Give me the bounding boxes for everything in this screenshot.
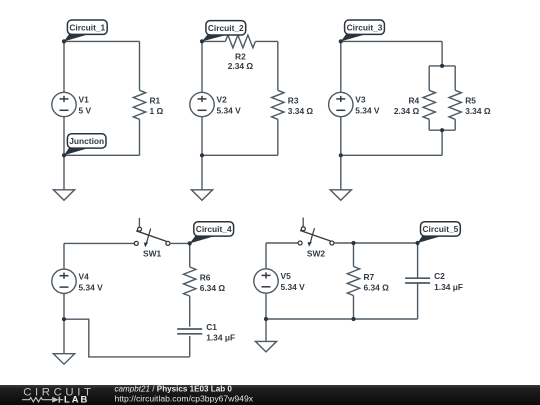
label R7 value — [364, 272, 390, 292]
svg-text:SW1: SW1 — [143, 249, 161, 259]
svg-text:Junction: Junction — [69, 136, 104, 146]
node R7 top junction — [351, 241, 355, 245]
logo symbol row: wire, resistor zigzag, diode — [22, 397, 63, 403]
wire C2 top lead — [417, 243, 419, 278]
wire V5 top lead — [265, 243, 267, 269]
label V5 value — [281, 271, 306, 292]
svg-text:V3: V3 — [355, 95, 366, 105]
node circuit4 top-right junction — [188, 241, 192, 245]
svg-text:1.34 μF: 1.34 μF — [206, 333, 235, 343]
wire R7 bottom lead — [353, 296, 355, 320]
voltage source V1 — [52, 92, 76, 116]
label V2 value — [217, 95, 242, 116]
label R1 value — [150, 96, 164, 116]
svg-text:Circuit_3: Circuit_3 — [347, 22, 383, 32]
resistor R3 — [272, 90, 284, 119]
label V3 value — [355, 95, 380, 116]
svg-text:R5: R5 — [465, 96, 476, 106]
switch SW1 — [134, 218, 170, 247]
wire parallel top bar — [429, 65, 455, 67]
svg-text:5.34 V: 5.34 V — [79, 283, 104, 293]
footer bar — [0, 385, 540, 405]
node label Circuit_1 — [64, 20, 107, 41]
wire V1 top lead — [63, 41, 65, 92]
svg-text:V1: V1 — [79, 95, 90, 105]
node label Circuit_3 — [341, 20, 385, 41]
svg-text:V4: V4 — [79, 272, 90, 282]
resistor R7 — [347, 267, 359, 296]
label V1 value — [79, 95, 92, 116]
label C2 value — [434, 271, 463, 292]
wire V4 top lead — [63, 243, 65, 269]
resistor R1 — [133, 90, 145, 119]
node label Circuit_4 — [190, 222, 234, 244]
resistor R6 — [184, 267, 196, 296]
wire V3 bottom lead — [340, 117, 342, 156]
wire V5 to SW2 — [266, 242, 298, 244]
svg-text:1.34 μF: 1.34 μF — [434, 282, 463, 292]
voltage source V5 — [254, 269, 278, 293]
svg-text:LAB: LAB — [64, 394, 89, 405]
svg-text:6.34 Ω: 6.34 Ω — [364, 282, 390, 292]
label R4 value — [394, 96, 420, 116]
wire to ground 4 — [63, 319, 65, 354]
node label Circuit_5 — [418, 222, 461, 243]
svg-text:R1: R1 — [150, 96, 161, 106]
node circuit2 bottom-left junction — [200, 153, 204, 157]
svg-text:3.34 Ω: 3.34 Ω — [465, 106, 491, 116]
node circuit1 top-left junction — [62, 39, 66, 43]
svg-text:Circuit_5: Circuit_5 — [422, 224, 458, 234]
ground circuit4 — [53, 354, 74, 365]
label R3 value — [288, 96, 314, 116]
svg-text:R2: R2 — [235, 52, 246, 62]
node circuit2 top-left junction — [200, 39, 204, 43]
node label Circuit_2 — [202, 21, 246, 42]
wire V2 bottom lead — [201, 117, 203, 156]
node circuit4 bottom-left junction — [62, 317, 66, 321]
svg-text:R3: R3 — [288, 96, 299, 106]
wire circuit3 top — [341, 40, 442, 42]
node parallel bottom junction — [440, 128, 444, 132]
svg-text:2.34 Ω: 2.34 Ω — [394, 106, 420, 116]
voltage source V4 — [52, 269, 76, 293]
svg-text:1 Ω: 1 Ω — [150, 106, 164, 116]
wire to ground 1 — [63, 155, 65, 190]
svg-text:2.34 Ω: 2.34 Ω — [228, 61, 254, 71]
node circuit1 bottom-left junction — [62, 153, 66, 157]
node parallel top junction — [440, 64, 444, 68]
svg-text:Circuit_1: Circuit_1 — [69, 22, 105, 32]
ground circuit5 — [255, 341, 276, 352]
wire R6 top lead — [189, 243, 191, 267]
ground circuit2 — [191, 190, 212, 201]
wire circuit1 top — [64, 40, 140, 42]
wire R1 top lead — [139, 41, 141, 90]
switch SW2 — [298, 218, 334, 247]
wire circuit2 top-right — [255, 40, 277, 42]
svg-text:3.34 Ω: 3.34 Ω — [288, 106, 314, 116]
wire R3 bottom lead — [277, 119, 279, 155]
wire R4 bottom lead — [428, 119, 430, 130]
wire circuit2 top-left — [202, 40, 225, 42]
capacitor C2 — [405, 278, 430, 283]
svg-text:V5: V5 — [281, 271, 292, 281]
svg-text:SW2: SW2 — [307, 248, 325, 258]
wire V2 top lead — [201, 41, 203, 92]
wire R5 top lead — [454, 66, 456, 90]
wire to ground 5 — [265, 319, 267, 341]
wire R7 top lead — [353, 243, 355, 267]
svg-text:R7: R7 — [364, 272, 375, 282]
wire circuit1 bottom — [64, 154, 140, 156]
wire R5 bottom lead — [454, 119, 456, 130]
wire parallel bottom bar — [429, 129, 455, 131]
label R6 value — [200, 272, 226, 292]
svg-text:R6: R6 — [200, 272, 211, 282]
resistor R2 — [225, 35, 255, 48]
voltage source V2 — [190, 92, 214, 116]
node circuit5 bottom-left junction — [264, 317, 268, 321]
svg-text:campbt21 / Physics 1E03 Lab 0: campbt21 / Physics 1E03 Lab 0 — [115, 384, 233, 393]
svg-text:C2: C2 — [434, 271, 445, 281]
ground circuit3 — [330, 190, 351, 201]
node circuit3 bottom-left junction — [339, 153, 343, 157]
svg-text:5.34 V: 5.34 V — [281, 282, 306, 292]
svg-text:5.34 V: 5.34 V — [217, 106, 242, 116]
node circuit5 top-right junction — [416, 241, 420, 245]
label C1 value — [206, 322, 235, 343]
wire circuit5 bottom — [266, 318, 418, 320]
svg-text:V2: V2 — [217, 95, 228, 105]
svg-text:6.34 Ω: 6.34 Ω — [200, 283, 226, 293]
wire V5 bottom lead — [265, 293, 267, 319]
wire R1 bottom lead — [139, 119, 141, 155]
capacitor C1 — [177, 329, 202, 334]
svg-text:Circuit_4: Circuit_4 — [196, 224, 232, 234]
svg-text:5 V: 5 V — [79, 106, 92, 116]
voltage source V3 — [329, 92, 353, 116]
node circuit3 top-left junction — [339, 39, 343, 43]
label V4 value — [79, 272, 104, 293]
wire SW1 to node — [170, 242, 190, 244]
wire circuit2 bottom — [202, 154, 278, 156]
svg-text:http://circuitlab.com/cp3bpy67: http://circuitlab.com/cp3bpy67w949x — [115, 394, 254, 404]
ground circuit1 — [53, 190, 74, 201]
wire R3 top lead — [277, 41, 279, 90]
wire from parallel block down — [441, 130, 443, 155]
wire C2 bottom lead — [417, 283, 419, 319]
wire R6 to C1 — [189, 296, 191, 327]
svg-text:R4: R4 — [408, 96, 419, 106]
resistor R5 — [449, 90, 461, 119]
wire V4 to SW1 — [64, 242, 134, 244]
wire SW2 to node — [334, 242, 418, 244]
resistor R4 — [423, 90, 435, 119]
wire circuit3 bottom — [341, 154, 442, 156]
wire V3 top lead — [340, 41, 342, 92]
svg-text:C1: C1 — [206, 322, 217, 332]
wire C1 bottom lead — [189, 336, 191, 357]
node label Junction — [64, 134, 106, 156]
label R2 value — [228, 52, 254, 72]
wire R4 top lead — [428, 66, 430, 90]
svg-text:Circuit_2: Circuit_2 — [208, 23, 244, 33]
wire feed to parallel block — [441, 41, 443, 66]
wire to ground 2 — [201, 155, 203, 190]
wire to ground 3 — [340, 155, 342, 190]
wire V4 bottom lead — [63, 294, 65, 320]
wire V1 bottom lead — [63, 117, 65, 156]
svg-text:5.34 V: 5.34 V — [355, 106, 380, 116]
label R5 value — [465, 96, 491, 116]
node R7 bottom junction — [351, 317, 355, 321]
wire circuit4 bottom return — [64, 319, 190, 357]
